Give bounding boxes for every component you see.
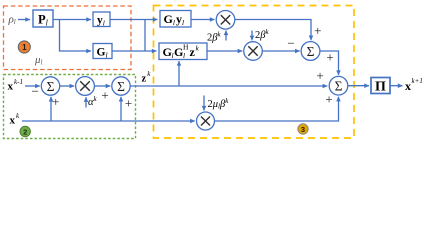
svg-text:Π: Π (375, 80, 386, 95)
svg-text:k-1: k-1 (14, 78, 23, 86)
svg-text:+: + (325, 92, 332, 107)
badge 2 (20, 126, 30, 136)
wire sum3 to mult4 (60, 85, 74, 87)
svg-text:+: + (101, 88, 108, 103)
wire mult1 to sum1 top (235, 20, 311, 41)
region box 1 (red dashed) (4, 6, 132, 70)
block GGHz (159, 43, 207, 61)
summator sum2 (329, 76, 348, 95)
block Pi projector (371, 78, 390, 95)
wire junction vertical between rows (144, 20, 146, 52)
svg-text:ρl: ρl (8, 14, 16, 27)
svg-text:+: + (125, 96, 132, 111)
svg-text:+: + (316, 68, 323, 83)
multiplier X4 (76, 77, 95, 96)
badge 3 (298, 124, 308, 134)
svg-text:G: G (174, 45, 183, 59)
svg-text:αk: αk (88, 95, 98, 108)
multiplier X2 (244, 42, 263, 61)
svg-text:Σ: Σ (117, 79, 125, 94)
svg-text:k: k (16, 112, 20, 120)
wire Pi to xk+1 (391, 85, 403, 87)
svg-text:+: + (326, 50, 333, 65)
wire zk from sum4 to sum2 (130, 85, 327, 87)
svg-text:G: G (163, 45, 172, 59)
wire alpha up-arrow into mult4 (85, 97, 87, 107)
wire GGHz block to mult2 (207, 50, 242, 52)
svg-text:l: l (183, 51, 185, 60)
wire mult3 to sum2 bottom (215, 97, 339, 121)
svg-text:μl: μl (34, 54, 43, 67)
wire 2beta down-arrow into mult2 (251, 31, 253, 41)
wire xk-1 to sum3 (25, 85, 40, 87)
summator sum3 (41, 77, 59, 95)
svg-text:3: 3 (301, 125, 305, 134)
svg-text:1: 1 (22, 43, 27, 52)
svg-text:H: H (183, 43, 189, 52)
multiplier X3 (197, 112, 215, 130)
block Gy (160, 11, 191, 28)
summator sum1 (301, 42, 320, 61)
svg-text:k+1: k+1 (412, 77, 423, 85)
svg-text:2μlβk: 2μlβk (208, 97, 230, 111)
badge 1 (18, 41, 30, 53)
region box 3 (yellow dashed) (154, 6, 355, 139)
svg-text:+: + (314, 23, 321, 38)
wire sum2 to Pi block (347, 85, 369, 87)
wire sum1 to sum2 top (320, 51, 339, 75)
block G (93, 44, 112, 60)
block y (93, 12, 110, 28)
svg-text:x: x (10, 115, 16, 127)
svg-text:k: k (147, 70, 151, 78)
region box 2 (green dashed) (4, 75, 136, 139)
svg-text:−: − (287, 36, 294, 51)
wire P to y (53, 19, 91, 21)
svg-text:−: − (32, 83, 39, 98)
svg-text:x: x (8, 81, 14, 93)
wire xk branch up into sum3 (50, 97, 52, 121)
wire xk branch up into sum4 (120, 97, 122, 121)
multiplier X1 (216, 10, 235, 29)
wire 2beta up-arrow into mult1 (225, 31, 227, 41)
summator sum4 (112, 77, 130, 95)
svg-text:+: + (52, 94, 59, 109)
svg-text:x: x (405, 79, 411, 93)
wire G to GGHz block (112, 50, 157, 52)
wire P branch down to G (60, 20, 92, 52)
svg-text:Σ: Σ (335, 79, 343, 94)
wire mult4 to sum4 (95, 85, 111, 87)
svg-text:Σ: Σ (307, 44, 315, 59)
wire 2mubeta down-arrow into mult3 (203, 96, 205, 111)
block P (33, 10, 53, 28)
wire zk branch up into GGHz block (178, 61, 180, 86)
wire rho to P (18, 19, 30, 21)
wire xk to mult3 (22, 120, 195, 122)
wire mult2 to sum1 (262, 50, 299, 52)
svg-text:2βk: 2βk (255, 28, 269, 41)
svg-text:2: 2 (23, 127, 27, 136)
wire Gy block to mult1 (191, 19, 215, 21)
wire y to Gy block (110, 19, 158, 21)
svg-text:Σ: Σ (47, 79, 55, 94)
svg-text:2βk: 2βk (207, 31, 221, 44)
svg-text:z: z (142, 74, 147, 85)
